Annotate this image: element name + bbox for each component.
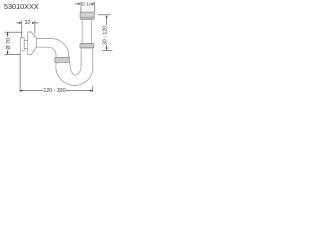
dimension G 1 1/4 bbox=[75, 2, 95, 12]
union nut bbox=[55, 58, 70, 63]
svg-text:120 - 300: 120 - 300 bbox=[44, 88, 66, 94]
vertical pipe upper bbox=[82, 19, 92, 43]
wall nut hexagon bbox=[28, 32, 37, 55]
svg-text:G 1¼: G 1¼ bbox=[82, 2, 94, 8]
lower compression nut bbox=[80, 44, 94, 48]
gap piece between escutcheon and nut bbox=[24, 40, 27, 42]
top cap nut G 1 1/4 bbox=[80, 12, 94, 19]
dimension 120-300 bbox=[20, 52, 93, 92]
svg-text:Ø 70: Ø 70 bbox=[6, 38, 12, 50]
dimension 30-120 bbox=[98, 15, 112, 51]
horizontal pipe + elbow down bbox=[36, 39, 68, 58]
U-bend tube bbox=[56, 48, 93, 85]
dimension O70 vertical left bbox=[4, 32, 21, 54]
dimension 32 bbox=[16, 20, 39, 37]
svg-text:53010XXX: 53010XXX bbox=[4, 2, 39, 11]
svg-text:30 - 120: 30 - 120 bbox=[103, 26, 109, 45]
svg-text:32: 32 bbox=[25, 20, 31, 26]
wall escutcheon bbox=[20, 38, 24, 51]
